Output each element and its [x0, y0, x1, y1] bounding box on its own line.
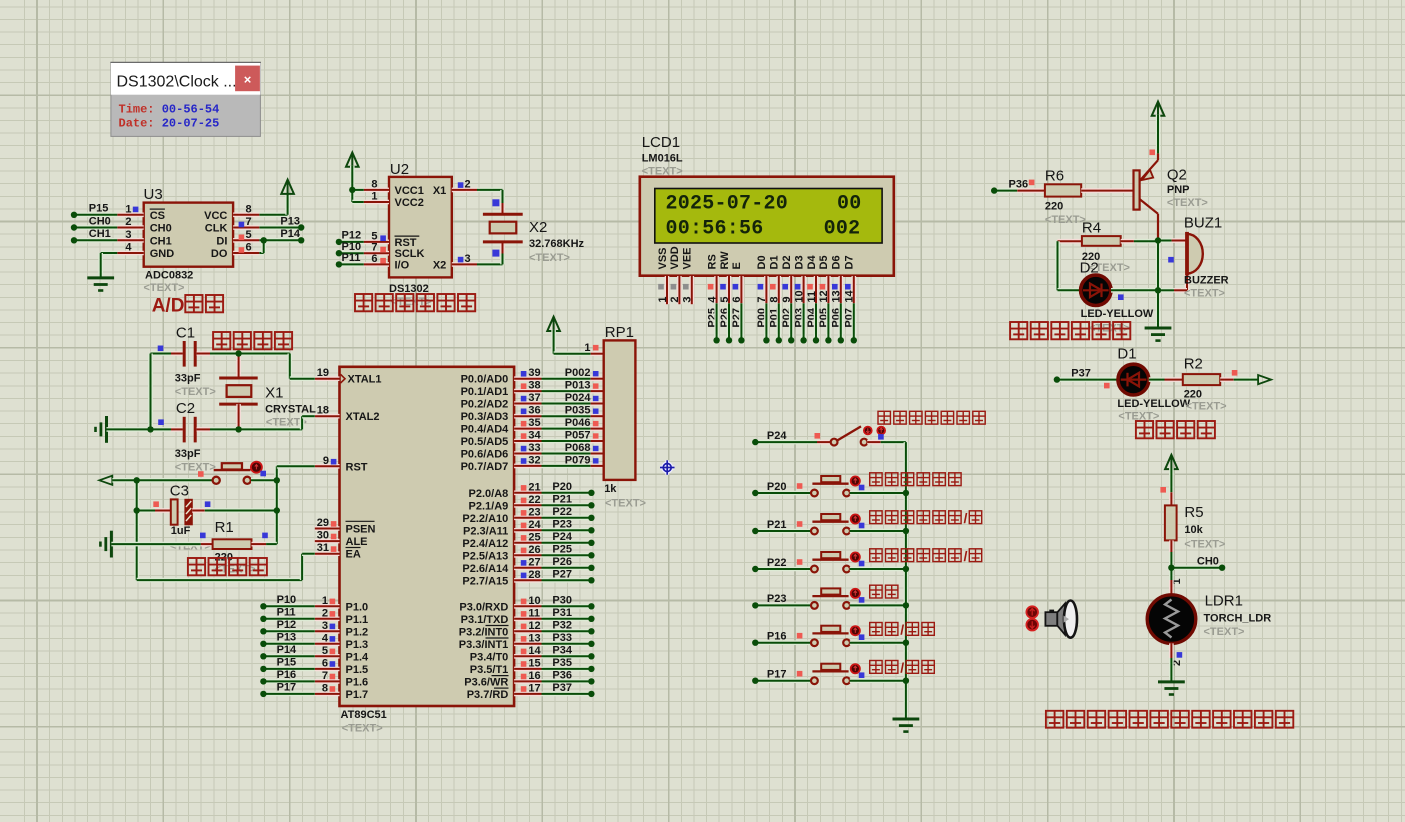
svg-text:P30: P30: [552, 594, 572, 606]
svg-text:P024: P024: [565, 392, 592, 404]
svg-text:6: 6: [246, 242, 252, 254]
resistor R1 220: [201, 542, 213, 547]
crystal X1: [236, 355, 241, 378]
svg-text:P3.1/TXD: P3.1/TXD: [461, 614, 509, 626]
svg-text:PSEN: PSEN: [346, 524, 376, 536]
svg-text:P057: P057: [565, 430, 591, 442]
U1 pin 32 P0.7/AD7: [514, 464, 541, 469]
svg-text:11: 11: [806, 291, 818, 303]
svg-text:14: 14: [528, 645, 541, 657]
svg-text:3: 3: [465, 253, 471, 265]
svg-text:22: 22: [528, 494, 540, 506]
svg-text:P2.4/A12: P2.4/A12: [462, 538, 508, 550]
svg-text:LED-YELLOW: LED-YELLOW: [1117, 398, 1190, 410]
svg-text:P20: P20: [767, 481, 787, 493]
svg-text:<TEXT>: <TEXT>: [1204, 626, 1245, 638]
svg-text:CH1: CH1: [89, 228, 111, 240]
U3 pin 1 CS: [117, 213, 143, 218]
svg-text:00: 00: [837, 193, 862, 216]
svg-text:1k: 1k: [604, 483, 617, 495]
svg-text:ADC0832: ADC0832: [145, 270, 193, 282]
svg-text:36: 36: [528, 405, 540, 417]
svg-text:Time: 00-56-54: Time: 00-56-54: [119, 103, 220, 117]
svg-text:P1.1: P1.1: [346, 614, 369, 626]
svg-text:P3.6/WR: P3.6/WR: [464, 676, 508, 688]
Q2 emitter red square: [1149, 150, 1155, 156]
svg-text:1: 1: [657, 296, 669, 302]
reset button toggle actuator: [251, 462, 262, 473]
svg-text:VSS: VSS: [657, 247, 669, 269]
svg-text:DI: DI: [216, 235, 227, 247]
U1 pin 17 P3.7/RD: [514, 692, 541, 697]
U1 pin 4 P1.3: [315, 641, 340, 646]
svg-text:R1: R1: [215, 519, 234, 536]
svg-text:RST: RST: [395, 237, 417, 249]
P16 blue square: [859, 634, 865, 640]
U1 pin 25 P2.4/A12: [514, 540, 541, 545]
D1 red square: [1104, 383, 1110, 389]
svg-text:CH1: CH1: [150, 235, 172, 247]
wire D1 to R2: [1149, 377, 1165, 382]
svg-text:A/D: A/D: [152, 296, 185, 317]
rail right of C3: [274, 480, 279, 544]
wire P0.6 to RP1: [542, 451, 591, 456]
svg-text:LM016L: LM016L: [642, 152, 683, 164]
wire P0.3 to RP1: [542, 414, 591, 419]
wire P35 net: [542, 667, 592, 672]
wire power to RP1 pin1: [551, 330, 556, 354]
svg-text:DS1302\Clock ...: DS1302\Clock ...: [117, 74, 237, 91]
svg-text:5: 5: [719, 296, 731, 302]
svg-text:VCC2: VCC2: [395, 197, 424, 209]
svg-text:3: 3: [322, 620, 328, 632]
svg-text:P2.0/A8: P2.0/A8: [469, 488, 509, 500]
svg-text:ALE: ALE: [346, 536, 368, 548]
svg-text:8: 8: [322, 682, 328, 694]
wire node up to U1 RST: [274, 466, 279, 480]
svg-text:P2.1/A9: P2.1/A9: [469, 500, 509, 512]
label reset circuit (chinese): [188, 558, 205, 575]
svg-text:11: 11: [528, 607, 540, 619]
svg-text:P13: P13: [277, 631, 297, 643]
label auto/manual (chinese): [870, 623, 882, 636]
svg-text:P36: P36: [552, 669, 572, 681]
U1 pin 16 P3.6/WR: [514, 679, 541, 684]
svg-text:8: 8: [371, 178, 377, 190]
svg-text:13: 13: [528, 632, 540, 644]
rail left of C3 down to EA: [134, 480, 139, 580]
svg-text:P12: P12: [277, 619, 297, 631]
wire U2 X1 to crystal X2 top: [477, 188, 503, 193]
svg-text:P1.4: P1.4: [346, 651, 370, 663]
svg-text:28: 28: [528, 569, 540, 581]
wire U2 X2 pin to crystal X2 bottom: [477, 262, 503, 267]
svg-text:P37: P37: [1071, 367, 1091, 379]
svg-text:23: 23: [528, 506, 540, 518]
svg-text:P15: P15: [277, 657, 297, 669]
U2 pin 6 I/O: [364, 262, 389, 267]
wire P14 net: [263, 654, 314, 659]
R1 squares: [200, 533, 206, 539]
svg-text:LCD1: LCD1: [642, 134, 680, 151]
svg-text:1: 1: [584, 342, 590, 354]
U3 pin 2 CH0: [117, 225, 143, 230]
svg-text:1: 1: [371, 191, 377, 203]
svg-text:P17: P17: [277, 682, 297, 694]
LED D2 LED-YELLOW: [1058, 288, 1081, 293]
svg-text:9: 9: [781, 296, 793, 302]
svg-text:3: 3: [682, 296, 694, 302]
U1 pin 18 XTAL2: [315, 414, 340, 419]
svg-text:D7: D7: [844, 255, 856, 269]
svg-text:P15: P15: [89, 203, 109, 215]
C3 squares: [153, 501, 159, 507]
resistor R4 220: [1058, 239, 1082, 244]
svg-text:I/O: I/O: [395, 259, 410, 271]
svg-text:P002: P002: [565, 367, 591, 379]
blue marker square near X2 top: [492, 199, 499, 206]
transistor Q2 PNP: [1134, 170, 1140, 209]
svg-text:P23: P23: [767, 593, 787, 605]
svg-text:<TEXT>: <TEXT>: [1186, 401, 1227, 413]
wire P17 net: [263, 692, 314, 697]
svg-text:002: 002: [824, 218, 861, 241]
svg-text:P3.0/RXD: P3.0/RXD: [459, 601, 508, 613]
P21 blue square: [859, 523, 865, 529]
output terminal arrow right: [1258, 375, 1271, 384]
wire P36 net: [542, 679, 592, 684]
U3 pin 6 DO: [233, 251, 259, 256]
svg-text:220: 220: [1045, 201, 1063, 213]
wire P21 to button: [755, 529, 811, 534]
svg-text:D1: D1: [1117, 346, 1136, 363]
svg-text:P27: P27: [552, 568, 572, 580]
wire button to RST node: [251, 478, 277, 483]
wire P0.7 to RP1: [542, 464, 591, 469]
wire P12 net: [263, 629, 314, 634]
label set system time (chinese): [870, 473, 882, 486]
svg-text:RW: RW: [719, 251, 731, 270]
svg-text:P0.2/AD2: P0.2/AD2: [461, 399, 509, 411]
torch brightness down knob: [1026, 619, 1038, 631]
wire P20 net: [542, 490, 592, 495]
wire P17 to button: [755, 678, 811, 683]
wire P23 net: [542, 528, 592, 533]
U3 pin 4 GND: [117, 251, 143, 256]
svg-text:<TEXT>: <TEXT>: [1167, 197, 1208, 209]
svg-text:1: 1: [322, 595, 328, 607]
wire P26 net: [542, 565, 592, 570]
label set work time/add (chinese): [870, 511, 882, 524]
svg-text:P3.2/INT0: P3.2/INT0: [459, 626, 509, 638]
svg-text:7: 7: [322, 670, 328, 682]
rail R4 to D2: [1055, 241, 1060, 290]
wire U3 DI to P14: [259, 238, 301, 243]
capacitor C2: [107, 427, 172, 432]
U3 pin 8 VCC: [233, 213, 259, 218]
svg-text:BUZ1: BUZ1: [1184, 215, 1222, 232]
U1 pin 19 XTAL1: [315, 376, 340, 381]
rail C1 to C2: [148, 354, 153, 430]
svg-text:10k: 10k: [1184, 524, 1203, 536]
svg-text:8: 8: [246, 203, 252, 215]
wire P0.4 to RP1: [542, 426, 591, 431]
P21 red square: [797, 521, 803, 527]
svg-text:P33: P33: [552, 632, 572, 644]
svg-text:39: 39: [528, 367, 540, 379]
svg-text:P1.2: P1.2: [346, 626, 369, 638]
svg-text:P1.0: P1.0: [346, 601, 369, 613]
U1 pin 35 P0.4/AD4: [514, 426, 541, 431]
resistor pack RP1 body: [604, 340, 636, 480]
P22 red square: [797, 559, 803, 565]
svg-text:P35: P35: [552, 657, 572, 669]
svg-text:P12: P12: [342, 230, 362, 242]
svg-text:29: 29: [317, 517, 329, 529]
U1 pin 29 PSEN: [315, 526, 340, 531]
svg-text:5: 5: [371, 230, 377, 242]
wire button P21 to rail: [850, 529, 906, 534]
wire P22 net: [542, 515, 592, 520]
input terminal arrow left: [99, 476, 112, 485]
R2 red square: [1232, 370, 1238, 376]
label crystal circuit (chinese): [213, 332, 230, 349]
svg-text:<TEXT>: <TEXT>: [175, 462, 216, 474]
wire P0.5 to RP1: [542, 439, 591, 444]
svg-text:P013: P013: [565, 380, 591, 392]
U1 pin 13 P3.3/INT1: [514, 641, 541, 646]
wire U3 VCC to power: [259, 213, 287, 218]
wire CH0 to U3 pin2: [74, 225, 117, 230]
wire C1 node to XTAL1 pin19: [239, 351, 290, 356]
svg-text:P17: P17: [767, 669, 787, 681]
label street lamp circuit (chinese): [1136, 421, 1153, 438]
U1 pin 34 P0.5/AD5: [514, 439, 541, 444]
svg-text:32.768KHz: 32.768KHz: [529, 238, 585, 250]
svg-text:DO: DO: [211, 248, 228, 260]
svg-text:C1: C1: [176, 325, 195, 342]
U1 pin 9 RST: [315, 464, 340, 469]
svg-text:10: 10: [793, 290, 805, 302]
svg-text:30: 30: [317, 530, 329, 542]
svg-text:38: 38: [528, 380, 540, 392]
svg-text:RP1: RP1: [605, 324, 634, 341]
P17 toggle actuator: [851, 664, 860, 673]
U1 pin 6 P1.5: [315, 667, 340, 672]
svg-text:R5: R5: [1184, 504, 1203, 521]
wire power to U2 VCC1/VCC2: [350, 166, 355, 202]
svg-text:P10: P10: [277, 594, 297, 606]
wire P27 net: [542, 578, 592, 583]
svg-text:<TEXT>: <TEXT>: [1184, 288, 1225, 300]
label sound light alarm circuit (chinese): [1010, 322, 1027, 339]
R5 red square: [1160, 487, 1166, 493]
svg-text:P16: P16: [277, 669, 297, 681]
crystal X2 32.768KHz: [483, 213, 523, 216]
push button P20: [811, 490, 818, 497]
svg-text:220: 220: [1184, 388, 1202, 400]
svg-text:<TEXT>: <TEXT>: [529, 252, 570, 264]
svg-text:9: 9: [323, 455, 329, 467]
svg-text:21: 21: [528, 481, 540, 493]
P16 toggle actuator: [851, 626, 860, 635]
reset push button: [213, 477, 220, 484]
wire button P22 to rail: [850, 567, 906, 572]
svg-text:4: 4: [322, 632, 329, 644]
wire P16 to button: [755, 640, 811, 645]
svg-text:D4: D4: [806, 255, 818, 270]
svg-text:<TEXT>: <TEXT>: [175, 386, 216, 398]
LDR1 blue square: [1177, 652, 1183, 658]
wire R5 to LDR node: [1169, 552, 1174, 580]
svg-text:P31: P31: [552, 607, 572, 619]
U1 pin 36 P0.3/AD3: [514, 414, 541, 419]
svg-text:X1: X1: [433, 185, 446, 197]
svg-text:CH0: CH0: [1197, 556, 1219, 568]
svg-text:P3.4/T0: P3.4/T0: [470, 651, 509, 663]
svg-text:VDD: VDD: [669, 246, 681, 269]
svg-text:1: 1: [125, 203, 131, 215]
wire P33 net: [542, 641, 592, 646]
P23 toggle actuator: [851, 589, 860, 598]
svg-text:U3: U3: [144, 186, 163, 203]
svg-text:P2.2/A10: P2.2/A10: [462, 513, 508, 525]
U1 pin 15 P3.5/T1: [514, 667, 541, 672]
svg-text:RST: RST: [346, 461, 368, 473]
svg-text:×: ×: [244, 72, 252, 87]
svg-text:P10: P10: [342, 241, 362, 253]
switch SW-SPST P24 infrared sensor: [817, 440, 831, 445]
torch icon: [1045, 601, 1077, 638]
label lamp on/off (chinese): [870, 661, 882, 674]
wire P24 net: [542, 540, 592, 545]
label switch mode (chinese): [870, 585, 882, 598]
U1 pin 30 ALE: [315, 539, 340, 544]
power arrow for RP1: [553, 317, 555, 332]
svg-text:P3.5/T1: P3.5/T1: [470, 664, 509, 676]
svg-text:/: /: [900, 623, 904, 639]
wire P10 net: [263, 604, 314, 609]
wire P16 net: [263, 679, 314, 684]
DS1302 clock popup window: [110, 62, 261, 136]
U1 pin 38 P0.1/AD1: [514, 389, 541, 394]
wire P21 net: [542, 503, 592, 508]
wire node to CH0: [1171, 565, 1222, 570]
U1 pin 28 P2.7/A15: [514, 578, 541, 583]
svg-text:4: 4: [706, 296, 718, 303]
P16 red square: [797, 633, 803, 639]
svg-text:VEE: VEE: [682, 247, 694, 269]
wire LDR1 to ground: [1169, 643, 1174, 658]
svg-text:P1.5: P1.5: [346, 664, 369, 676]
wire button P16 to rail: [850, 640, 906, 645]
svg-text:X2: X2: [433, 259, 446, 271]
svg-text:AT89C51: AT89C51: [341, 709, 387, 721]
U1 pin 23 P2.2/A10: [514, 515, 541, 520]
power arrow for Q2: [1157, 102, 1159, 117]
LCD1 green screen: [655, 189, 882, 244]
capacitor C1: [151, 351, 172, 356]
power arrow for U3: [287, 180, 289, 195]
svg-text:<TEXT>: <TEXT>: [342, 723, 383, 735]
svg-text:P16: P16: [767, 631, 787, 643]
svg-text:P1.6: P1.6: [346, 676, 369, 688]
U3 pin 7 CLK: [233, 225, 259, 230]
svg-text:31: 31: [317, 542, 329, 554]
svg-text:D1: D1: [769, 255, 781, 269]
svg-text:12: 12: [528, 620, 540, 632]
wire P0.1 to RP1: [542, 389, 591, 394]
U3 pin 3 CH1: [117, 238, 143, 243]
U1 pin 3 P1.2: [315, 629, 340, 634]
U1 pin 11 P3.1/TXD: [514, 616, 541, 621]
wire U3 DO up to DI node: [259, 251, 263, 256]
svg-text:12: 12: [818, 290, 830, 302]
capacitor C3 1uF electrolytic: [137, 508, 155, 513]
svg-text:P32: P32: [552, 619, 572, 631]
svg-text:P13: P13: [280, 215, 300, 227]
resistor R6 220: [1017, 188, 1045, 193]
label set light threshold/sub (chinese): [870, 549, 882, 562]
wire P23 to button: [755, 603, 811, 608]
svg-text:P0.3/AD3: P0.3/AD3: [461, 411, 509, 423]
wire P13 net: [263, 641, 314, 646]
wire P0.0 to RP1: [542, 376, 591, 381]
svg-text:14: 14: [844, 289, 856, 302]
svg-text:P23: P23: [552, 518, 572, 530]
svg-text:P0.4/AD4: P0.4/AD4: [461, 424, 510, 436]
U1 pin 21 P2.0/A8: [514, 490, 541, 495]
R6 red square: [1029, 180, 1035, 186]
svg-text:P1.3: P1.3: [346, 639, 369, 651]
svg-text:<TEXT>: <TEXT>: [605, 498, 646, 510]
svg-text:25: 25: [528, 531, 540, 543]
U2 pin 3 X2: [452, 262, 477, 267]
U1 pin 1 P1.0: [315, 604, 340, 609]
push button P21: [811, 528, 818, 535]
buttons common rail to ground: [904, 442, 909, 719]
U2 pin 8 VCC1: [364, 188, 389, 193]
svg-text:7: 7: [756, 296, 768, 302]
svg-text:35: 35: [528, 417, 540, 429]
svg-text:P3.7/RD: P3.7/RD: [467, 689, 509, 701]
P22 blue square: [859, 561, 865, 567]
svg-text:33: 33: [528, 442, 540, 454]
svg-text:U2: U2: [390, 161, 409, 178]
U1 pin 10 P3.0/RXD: [514, 604, 541, 609]
svg-text:GND: GND: [150, 248, 175, 260]
wire P25 net: [542, 553, 592, 558]
wire P22 to button: [755, 567, 811, 572]
U1 pin 31 EA: [315, 551, 340, 556]
ground below LDR1: [1158, 680, 1185, 683]
blue marker square near X2 bottom: [492, 250, 499, 257]
svg-text:XTAL2: XTAL2: [346, 411, 380, 423]
svg-text:P1.7: P1.7: [346, 689, 369, 701]
wire terminal to reset button: [112, 478, 212, 483]
svg-text:24: 24: [528, 519, 541, 531]
wire P24 to switch: [755, 440, 817, 445]
wire P15 to U3 pin1: [74, 213, 117, 218]
wire button P20 to rail: [850, 491, 906, 496]
svg-text:7: 7: [371, 242, 377, 254]
svg-text:7: 7: [246, 216, 252, 228]
svg-text:D2: D2: [781, 255, 793, 269]
XTAL1 pin arrow marker: [341, 374, 346, 383]
power arrow for U2: [351, 153, 353, 168]
resistor R5 10k vertical: [1169, 492, 1174, 505]
svg-text:P0.6/AD6: P0.6/AD6: [461, 449, 509, 461]
